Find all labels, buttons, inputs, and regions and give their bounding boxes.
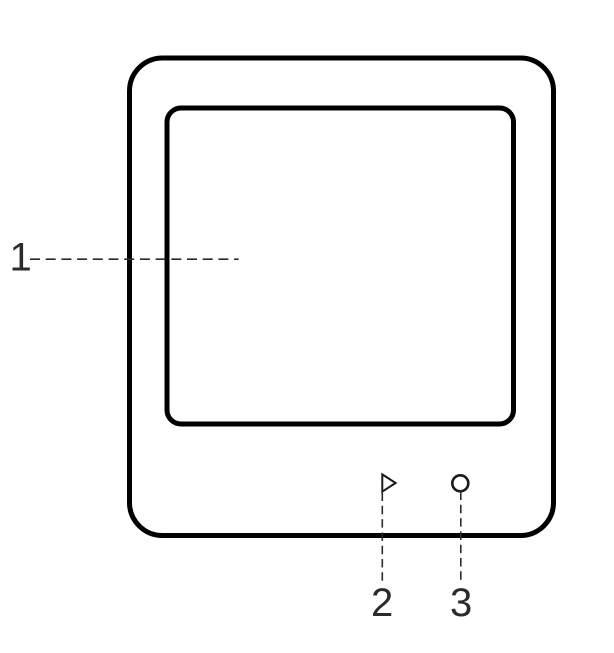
leader line 2: [381, 493, 383, 585]
leader line 1: [30, 258, 239, 260]
svg-text:3: 3: [450, 581, 472, 625]
svg-text:1: 1: [10, 236, 32, 280]
play button icon: [382, 474, 395, 491]
screen: [167, 108, 514, 424]
device body: [130, 58, 554, 536]
power button icon: [452, 475, 468, 491]
leader line 3: [460, 492, 462, 585]
svg-text:2: 2: [371, 581, 393, 625]
